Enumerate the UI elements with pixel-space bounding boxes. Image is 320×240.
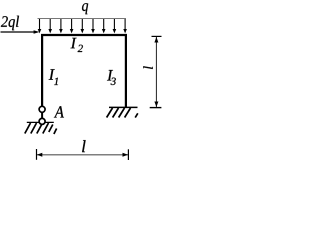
label I3: [107, 70, 116, 85]
right dimension line vertical: [155, 37, 157, 107]
left support upper hinge circle: [39, 106, 45, 112]
left support lower hinge circle (A): [39, 118, 45, 124]
label I2: [71, 38, 83, 52]
bottom dimension left arrow: [37, 153, 43, 157]
left support link bar: [41, 111, 43, 120]
beam (top girder): [41, 34, 127, 36]
label q: [82, 3, 88, 14]
label A: [54, 106, 64, 117]
right dimension down arrow: [154, 102, 158, 108]
right dimension bottom tick: [150, 107, 162, 109]
left support ground line: [27, 121, 54, 123]
bottom dimension right tick: [127, 149, 129, 160]
left column: [41, 34, 43, 107]
right dimension top tick: [152, 35, 162, 37]
right support hatching: [107, 108, 138, 118]
force 2ql arrow: [1, 31, 36, 33]
right column: [125, 34, 127, 107]
distributed load arrows: [38, 19, 127, 33]
left support hatching: [25, 123, 57, 134]
label I1: [49, 69, 58, 85]
distributed load q top line: [38, 18, 127, 20]
right dimension label l (rotated): [143, 66, 152, 69]
label 2ql: [1, 16, 19, 31]
right support ground line: [109, 106, 138, 108]
bottom dimension right arrow: [123, 153, 129, 157]
bottom dimension label l: [82, 140, 85, 152]
right dimension up arrow: [154, 37, 158, 43]
bottom dimension line: [37, 154, 128, 156]
bottom dimension left tick: [36, 149, 38, 160]
